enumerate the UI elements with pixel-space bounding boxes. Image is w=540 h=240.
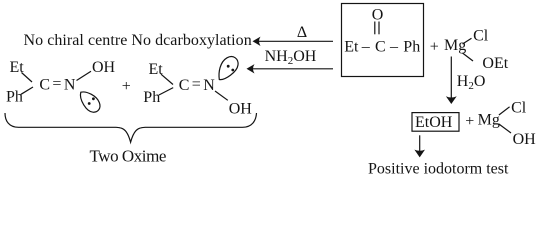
svg-text:–: – <box>361 39 371 56</box>
reaction arrow A1 line <box>259 40 333 42</box>
reactant box <box>342 4 424 77</box>
oxime2 lone pair dots <box>227 65 230 68</box>
svg-text:Δ: Δ <box>297 24 307 41</box>
bond Mg-Cl (product) <box>499 107 510 115</box>
oxime2 lone pair balloon <box>219 57 238 80</box>
svg-text:Et: Et <box>149 61 164 78</box>
svg-text:Ph: Ph <box>143 89 160 106</box>
svg-text:O: O <box>372 6 384 23</box>
oxime2 bond N-OH <box>215 91 228 100</box>
svg-text:C: C <box>375 39 386 56</box>
oxime1 lone pair balloon <box>80 92 99 112</box>
svg-text:Mg: Mg <box>478 111 500 128</box>
svg-text:Positive iodotorm test: Positive iodotorm test <box>368 160 509 177</box>
underbrace two oxime <box>5 113 257 142</box>
EtOH box <box>412 113 459 132</box>
svg-text:NH2OH: NH2OH <box>265 48 317 67</box>
svg-text:Et: Et <box>344 39 359 56</box>
svg-text:C: C <box>39 77 50 94</box>
oxime1 lone pair dots <box>88 102 91 105</box>
oxime2 bond Et-C <box>161 74 173 84</box>
svg-text:N: N <box>203 77 215 94</box>
svg-text:Mg: Mg <box>444 37 466 54</box>
svg-text:No chiral centre No dcarboxyla: No chiral centre No dcarboxylation <box>24 32 252 49</box>
bond Mg-OEt <box>463 53 474 61</box>
C=O double bond <box>374 22 376 35</box>
svg-text:=: = <box>192 76 201 93</box>
svg-text:+: + <box>465 113 474 130</box>
oxime1 bond Et-C <box>22 73 33 83</box>
H2O arrow head <box>446 96 457 104</box>
svg-text:–: – <box>389 39 399 56</box>
oxime2 bond Ph-C <box>159 88 173 95</box>
reaction arrow A2 head <box>247 64 255 73</box>
svg-text:C: C <box>179 77 190 94</box>
svg-text:N: N <box>64 77 76 94</box>
svg-text:Ph: Ph <box>403 39 420 56</box>
oxime1 bond Ph-C <box>21 87 33 94</box>
svg-text:+: + <box>430 39 439 56</box>
iodoform arrow line <box>419 135 421 151</box>
bond Mg-Cl <box>463 38 472 44</box>
svg-text:OEt: OEt <box>482 55 508 72</box>
svg-text:OH: OH <box>513 131 537 148</box>
oxime1 bond N-OH <box>77 71 92 80</box>
H2O arrow line <box>450 57 452 99</box>
svg-text:H2O: H2O <box>457 73 486 92</box>
svg-text:=: = <box>52 76 61 93</box>
svg-text:Cl: Cl <box>511 99 527 116</box>
reaction arrow A1 head <box>253 37 261 46</box>
svg-text:Cl: Cl <box>473 28 489 45</box>
bond Mg-OH (product) <box>499 124 511 133</box>
svg-text:OH: OH <box>229 100 253 117</box>
svg-text:Two Oxime: Two Oxime <box>90 147 166 166</box>
svg-text:+: + <box>122 78 131 95</box>
svg-text:Ph: Ph <box>6 89 23 106</box>
iodoform arrow head <box>414 150 425 158</box>
svg-text:EtOH: EtOH <box>415 114 453 131</box>
reaction arrow A2 line <box>253 68 333 70</box>
svg-text:OH: OH <box>92 59 116 76</box>
